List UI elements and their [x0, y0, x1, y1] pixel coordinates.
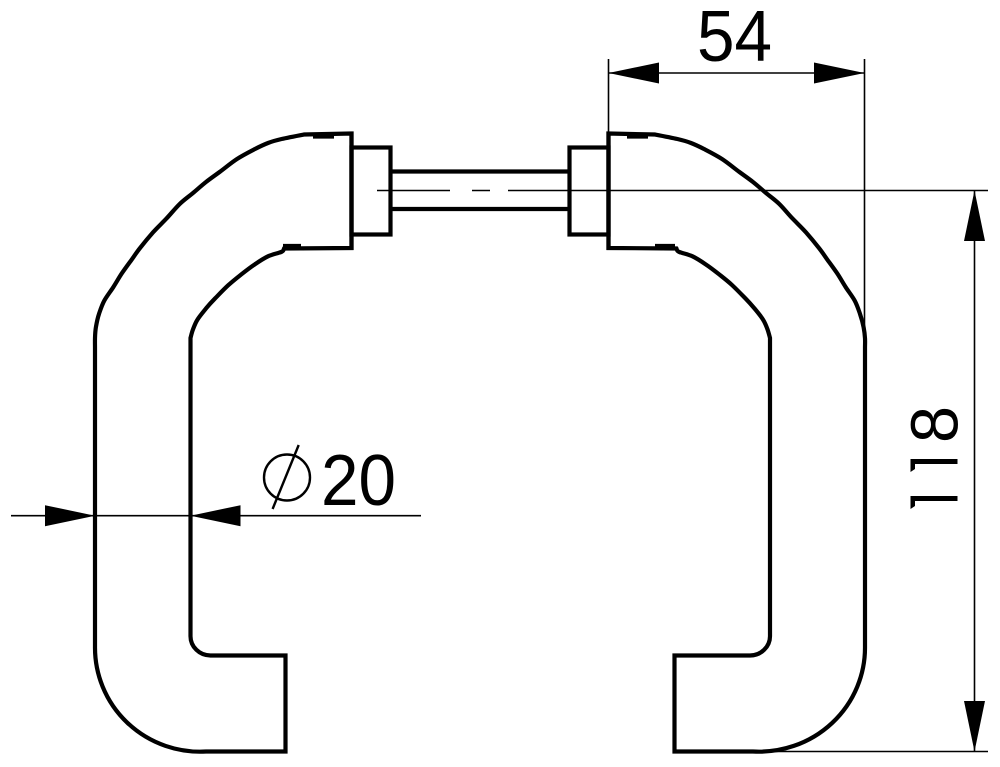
- spindle top line: [391, 169, 570, 173]
- right collar: [570, 148, 609, 235]
- extension line 118 bottom: [757, 751, 988, 753]
- left handle outline: [95, 134, 352, 752]
- right handle bottom parting dash: [655, 244, 675, 247]
- left neck edge: [349, 132, 353, 251]
- dimension line diameter 20: [11, 515, 421, 517]
- right handle outline: [609, 134, 866, 752]
- label 118: [898, 406, 973, 509]
- dimension line 118: [974, 191, 976, 752]
- svg-text:54: 54: [697, 0, 772, 77]
- left handle top parting dash: [313, 135, 334, 138]
- arrow d20 right: [191, 505, 241, 526]
- arrow 118 bottom: [964, 701, 985, 752]
- arrow d20 left: [45, 505, 95, 526]
- arrow 118 top: [964, 191, 985, 242]
- svg-text:8: 8: [898, 406, 973, 443]
- arrow 54 left: [609, 63, 660, 84]
- diameter symbol slash: [273, 445, 299, 509]
- left handle bottom parting dash: [283, 244, 301, 247]
- spindle bottom line: [391, 207, 570, 211]
- dimension line 54: [609, 72, 865, 74]
- extension line 54 left: [608, 59, 610, 133]
- left collar: [352, 148, 391, 235]
- arrow 54 right: [814, 63, 865, 84]
- svg-text:20: 20: [321, 441, 396, 521]
- right handle top parting dash: [627, 135, 648, 138]
- diameter symbol circle: [264, 455, 310, 501]
- extension line 54 right: [864, 59, 866, 330]
- centerline: [377, 190, 988, 192]
- right neck edge: [606, 132, 610, 251]
